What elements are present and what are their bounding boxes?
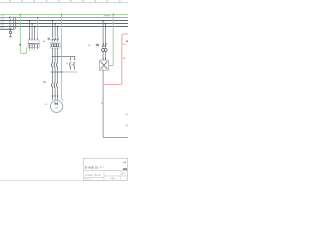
svg-text:ab.1: ab.1: [99, 167, 104, 169]
svg-text:Datum: Datum: [85, 178, 91, 181]
svg-text:E-ASE 01: E-ASE 01: [85, 166, 99, 170]
svg-text:Bearb.: Bearb.: [110, 178, 116, 180]
svg-text:Anlage 750-01: Anlage 750-01: [85, 174, 101, 177]
svg-text:Bl.1: Bl.1: [122, 173, 127, 175]
svg-text:+A: +A: [123, 160, 127, 164]
